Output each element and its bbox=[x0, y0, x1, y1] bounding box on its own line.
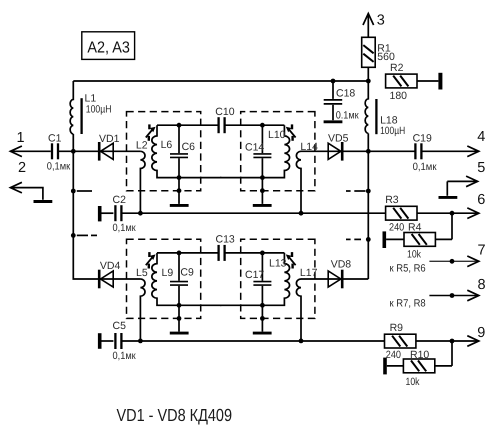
svg-text:0.1мк: 0.1мк bbox=[336, 109, 359, 121]
svg-text:VD4: VD4 bbox=[100, 260, 121, 272]
svg-text:C14: C14 bbox=[245, 141, 264, 153]
svg-text:100µH: 100µH bbox=[86, 104, 112, 116]
resistor R4 bbox=[382, 231, 386, 248]
svg-text:0,1мк: 0,1мк bbox=[413, 161, 437, 173]
svg-text:к R7, R8: к R7, R8 bbox=[390, 298, 426, 310]
svg-text:VD5: VD5 bbox=[328, 133, 349, 145]
tank block 2: C14 L10 L14 bbox=[220, 112, 315, 216]
node row2 left bbox=[71, 233, 76, 238]
wire top bus bbox=[73, 80, 368, 82]
resistor R1 bbox=[362, 37, 376, 67]
wire R9 to terminal 9 bbox=[416, 340, 479, 342]
svg-text:100µH: 100µH bbox=[380, 125, 405, 137]
node R9 R10 junction bbox=[450, 339, 455, 344]
svg-text:3: 3 bbox=[377, 13, 385, 29]
svg-text:C1: C1 bbox=[48, 133, 62, 145]
node column row A bbox=[366, 149, 371, 154]
svg-text:к R5, R6: к R5, R6 bbox=[390, 263, 426, 275]
inductor L18 bbox=[365, 81, 368, 133]
node input junction bbox=[71, 149, 76, 154]
svg-text:10k: 10k bbox=[407, 248, 422, 260]
dashed stub row2 left bbox=[77, 234, 88, 236]
svg-text:0,1мк: 0,1мк bbox=[113, 222, 137, 234]
svg-text:C5: C5 bbox=[113, 320, 127, 332]
terminal bar C2 bbox=[98, 206, 102, 221]
svg-text:C17: C17 bbox=[245, 269, 264, 281]
node R3 R4 junction bbox=[450, 211, 455, 216]
terminal bar C5 bbox=[98, 333, 102, 349]
svg-text:7: 7 bbox=[478, 243, 486, 259]
svg-text:L2: L2 bbox=[136, 139, 148, 151]
svg-text:C2: C2 bbox=[113, 194, 127, 206]
svg-text:10k: 10k bbox=[406, 376, 421, 388]
svg-text:9: 9 bbox=[477, 325, 485, 341]
svg-text:4: 4 bbox=[477, 129, 485, 145]
terminal bar R2 bbox=[438, 73, 442, 90]
svg-text:1: 1 bbox=[17, 130, 25, 146]
resistor R10 bbox=[383, 358, 387, 375]
node terminal 8 tap bbox=[450, 293, 455, 298]
resistor R2 bbox=[386, 74, 417, 88]
dashed stub row1 left bbox=[77, 190, 92, 192]
svg-text:6: 6 bbox=[477, 192, 485, 208]
capacitor C1 bbox=[52, 143, 58, 159]
wire bypass row bottom bbox=[121, 340, 384, 342]
dashed stub row2 right bbox=[346, 238, 351, 240]
svg-text:180: 180 bbox=[390, 90, 408, 102]
svg-text:R10: R10 bbox=[410, 349, 429, 361]
svg-text:R4: R4 bbox=[408, 221, 422, 233]
wire L14 to VD5 to column bbox=[301, 150, 368, 152]
svg-text:240: 240 bbox=[386, 349, 401, 361]
svg-text:0,1мк: 0,1мк bbox=[47, 161, 71, 173]
ground C18 bbox=[324, 120, 343, 123]
wire C1 to L2 bbox=[58, 150, 140, 152]
wire right column bbox=[367, 133, 369, 279]
svg-text:C18: C18 bbox=[336, 88, 355, 100]
svg-text:VD1: VD1 bbox=[99, 133, 120, 145]
svg-text:C9: C9 bbox=[180, 267, 194, 279]
svg-text:L13: L13 bbox=[269, 257, 287, 269]
svg-text:8: 8 bbox=[478, 277, 486, 293]
tank block 1: L2 L6 C6 bbox=[127, 112, 222, 216]
svg-text:C13: C13 bbox=[216, 233, 235, 245]
node row1 right bbox=[366, 189, 371, 194]
svg-text:R9: R9 bbox=[390, 322, 404, 334]
svg-text:L10: L10 bbox=[268, 129, 286, 141]
diode VD5 bbox=[328, 142, 342, 161]
svg-text:VD1 - VD8 КД409: VD1 - VD8 КД409 bbox=[117, 405, 233, 425]
wire left column bbox=[73, 134, 140, 279]
svg-text:R2: R2 bbox=[390, 62, 404, 74]
capacitor C10 bbox=[201, 124, 219, 126]
svg-text:L17: L17 bbox=[300, 267, 318, 279]
svg-text:C19: C19 bbox=[413, 133, 432, 145]
inductor L1 bbox=[70, 81, 73, 134]
diode VD4 bbox=[99, 270, 113, 289]
svg-text:5: 5 bbox=[477, 160, 485, 176]
diode VD8 bbox=[328, 270, 342, 289]
capacitor C19 bbox=[368, 150, 415, 152]
svg-text:A2, A3: A2, A3 bbox=[87, 40, 130, 57]
svg-text:2: 2 bbox=[18, 160, 26, 176]
svg-text:C10: C10 bbox=[215, 106, 234, 118]
node C18 bus junction bbox=[331, 79, 336, 84]
capacitor C13 bbox=[201, 252, 219, 254]
diode VD1 bbox=[99, 142, 113, 161]
wire R9-R10 link bbox=[451, 341, 453, 366]
tank block 3: L5 L9 C9 bbox=[127, 239, 222, 343]
ground terminal 5 bbox=[439, 196, 458, 199]
ground terminal 2 bbox=[34, 200, 53, 203]
node row2 right bbox=[366, 237, 371, 242]
wire R3-R4 link bbox=[451, 213, 453, 239]
svg-text:0,1мк: 0,1мк bbox=[113, 350, 137, 362]
node row1 left bbox=[71, 189, 76, 194]
node terminal 7 tap bbox=[450, 259, 455, 264]
wire bypass row top bbox=[121, 212, 385, 214]
svg-text:C6: C6 bbox=[182, 141, 196, 153]
svg-text:R3: R3 bbox=[385, 194, 399, 206]
svg-text:L5: L5 bbox=[136, 267, 148, 279]
wire L17 to VD8 to column bbox=[301, 278, 368, 280]
svg-text:L6: L6 bbox=[161, 139, 173, 151]
tank block 4: C17 L13 L17 bbox=[220, 239, 315, 343]
resistor R3 bbox=[386, 206, 417, 220]
svg-text:240: 240 bbox=[389, 221, 404, 233]
resistor R9 bbox=[385, 334, 416, 348]
svg-text:VD8: VD8 bbox=[331, 259, 352, 271]
svg-text:L9: L9 bbox=[162, 267, 174, 279]
node R1 bus junction bbox=[366, 79, 371, 84]
dashed stub row1 right bbox=[346, 190, 351, 192]
wire R3 to terminal 6 bbox=[417, 212, 479, 214]
